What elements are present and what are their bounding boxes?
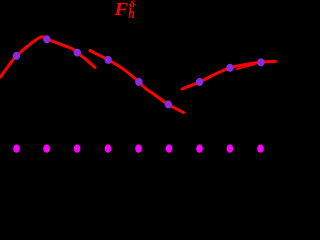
curve piece 3 xyxy=(182,61,276,89)
sample dot d1 xyxy=(13,52,20,60)
svg-text:F: F xyxy=(113,0,128,19)
grid dot g7 xyxy=(196,144,203,152)
grid dot g9 xyxy=(257,144,264,152)
grid dot g6 xyxy=(166,144,173,152)
sample dot d2 xyxy=(43,35,50,43)
curve piece 2 xyxy=(90,51,184,113)
sample dot d3 xyxy=(74,49,81,57)
curve piece 3b overlap sliver xyxy=(237,65,255,70)
grid dot g4 xyxy=(105,144,112,152)
sample dot d6 xyxy=(165,100,172,108)
grid dot g1 xyxy=(13,144,20,152)
grid dot g8 xyxy=(227,144,234,152)
label F_h^delta xyxy=(113,0,136,22)
sample dot d8 xyxy=(226,64,233,72)
svg-text:h: h xyxy=(128,6,135,22)
grid dot g3 xyxy=(74,144,81,152)
sample dot d9 xyxy=(257,58,264,66)
sample dot d4 xyxy=(105,56,112,64)
sample dot d7 xyxy=(196,78,203,86)
curve piece 1 xyxy=(1,37,96,77)
sample dot d5 xyxy=(135,78,142,86)
grid dot g5 xyxy=(135,144,142,152)
grid dot g2 xyxy=(43,144,50,152)
